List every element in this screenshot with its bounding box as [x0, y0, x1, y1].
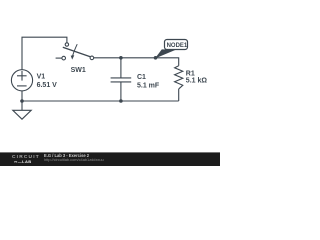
- svg-text:V1: V1: [37, 74, 46, 81]
- junction capacitor top: [119, 56, 123, 60]
- voltage source V1: [11, 70, 32, 91]
- wire switch open stub: [56, 57, 62, 59]
- svg-text:C1: C1: [137, 74, 146, 81]
- switch SW1 actuator arrow: [71, 44, 78, 59]
- footer logo CIRCUIT: [12, 156, 40, 161]
- switch SW1: [62, 43, 94, 60]
- label C1 value: [137, 74, 160, 89]
- node NODE1 callout pointer: [155, 49, 176, 58]
- wire top-right from switch to resistor corner: [94, 58, 179, 66]
- ground: [13, 101, 31, 119]
- footer title: [44, 154, 89, 158]
- svg-text:SW1: SW1: [71, 67, 86, 74]
- label V1 value: [37, 74, 58, 89]
- capacitor C1: [111, 58, 132, 101]
- node NODE1 dot: [154, 56, 158, 60]
- wire top-left from source to switch: [22, 37, 67, 70]
- footer url: [44, 158, 104, 162]
- wire bottom rail: [22, 100, 179, 102]
- junction ground node: [20, 99, 24, 103]
- resistor R1: [175, 66, 183, 101]
- svg-text:R1: R1: [186, 71, 195, 78]
- svg-text:5.1 kΩ: 5.1 kΩ: [186, 78, 208, 85]
- node NODE1 callout box: [165, 40, 188, 50]
- svg-text:NODE1: NODE1: [167, 43, 188, 49]
- svg-text:5.1 mF: 5.1 mF: [137, 82, 160, 89]
- junction capacitor bottom: [119, 99, 123, 103]
- wire source bottom: [21, 91, 23, 101]
- footer logo LAB: [14, 160, 32, 164]
- label R1 value: [186, 71, 208, 85]
- svg-text:6.51 V: 6.51 V: [37, 82, 58, 89]
- footer bar: [0, 152, 220, 166]
